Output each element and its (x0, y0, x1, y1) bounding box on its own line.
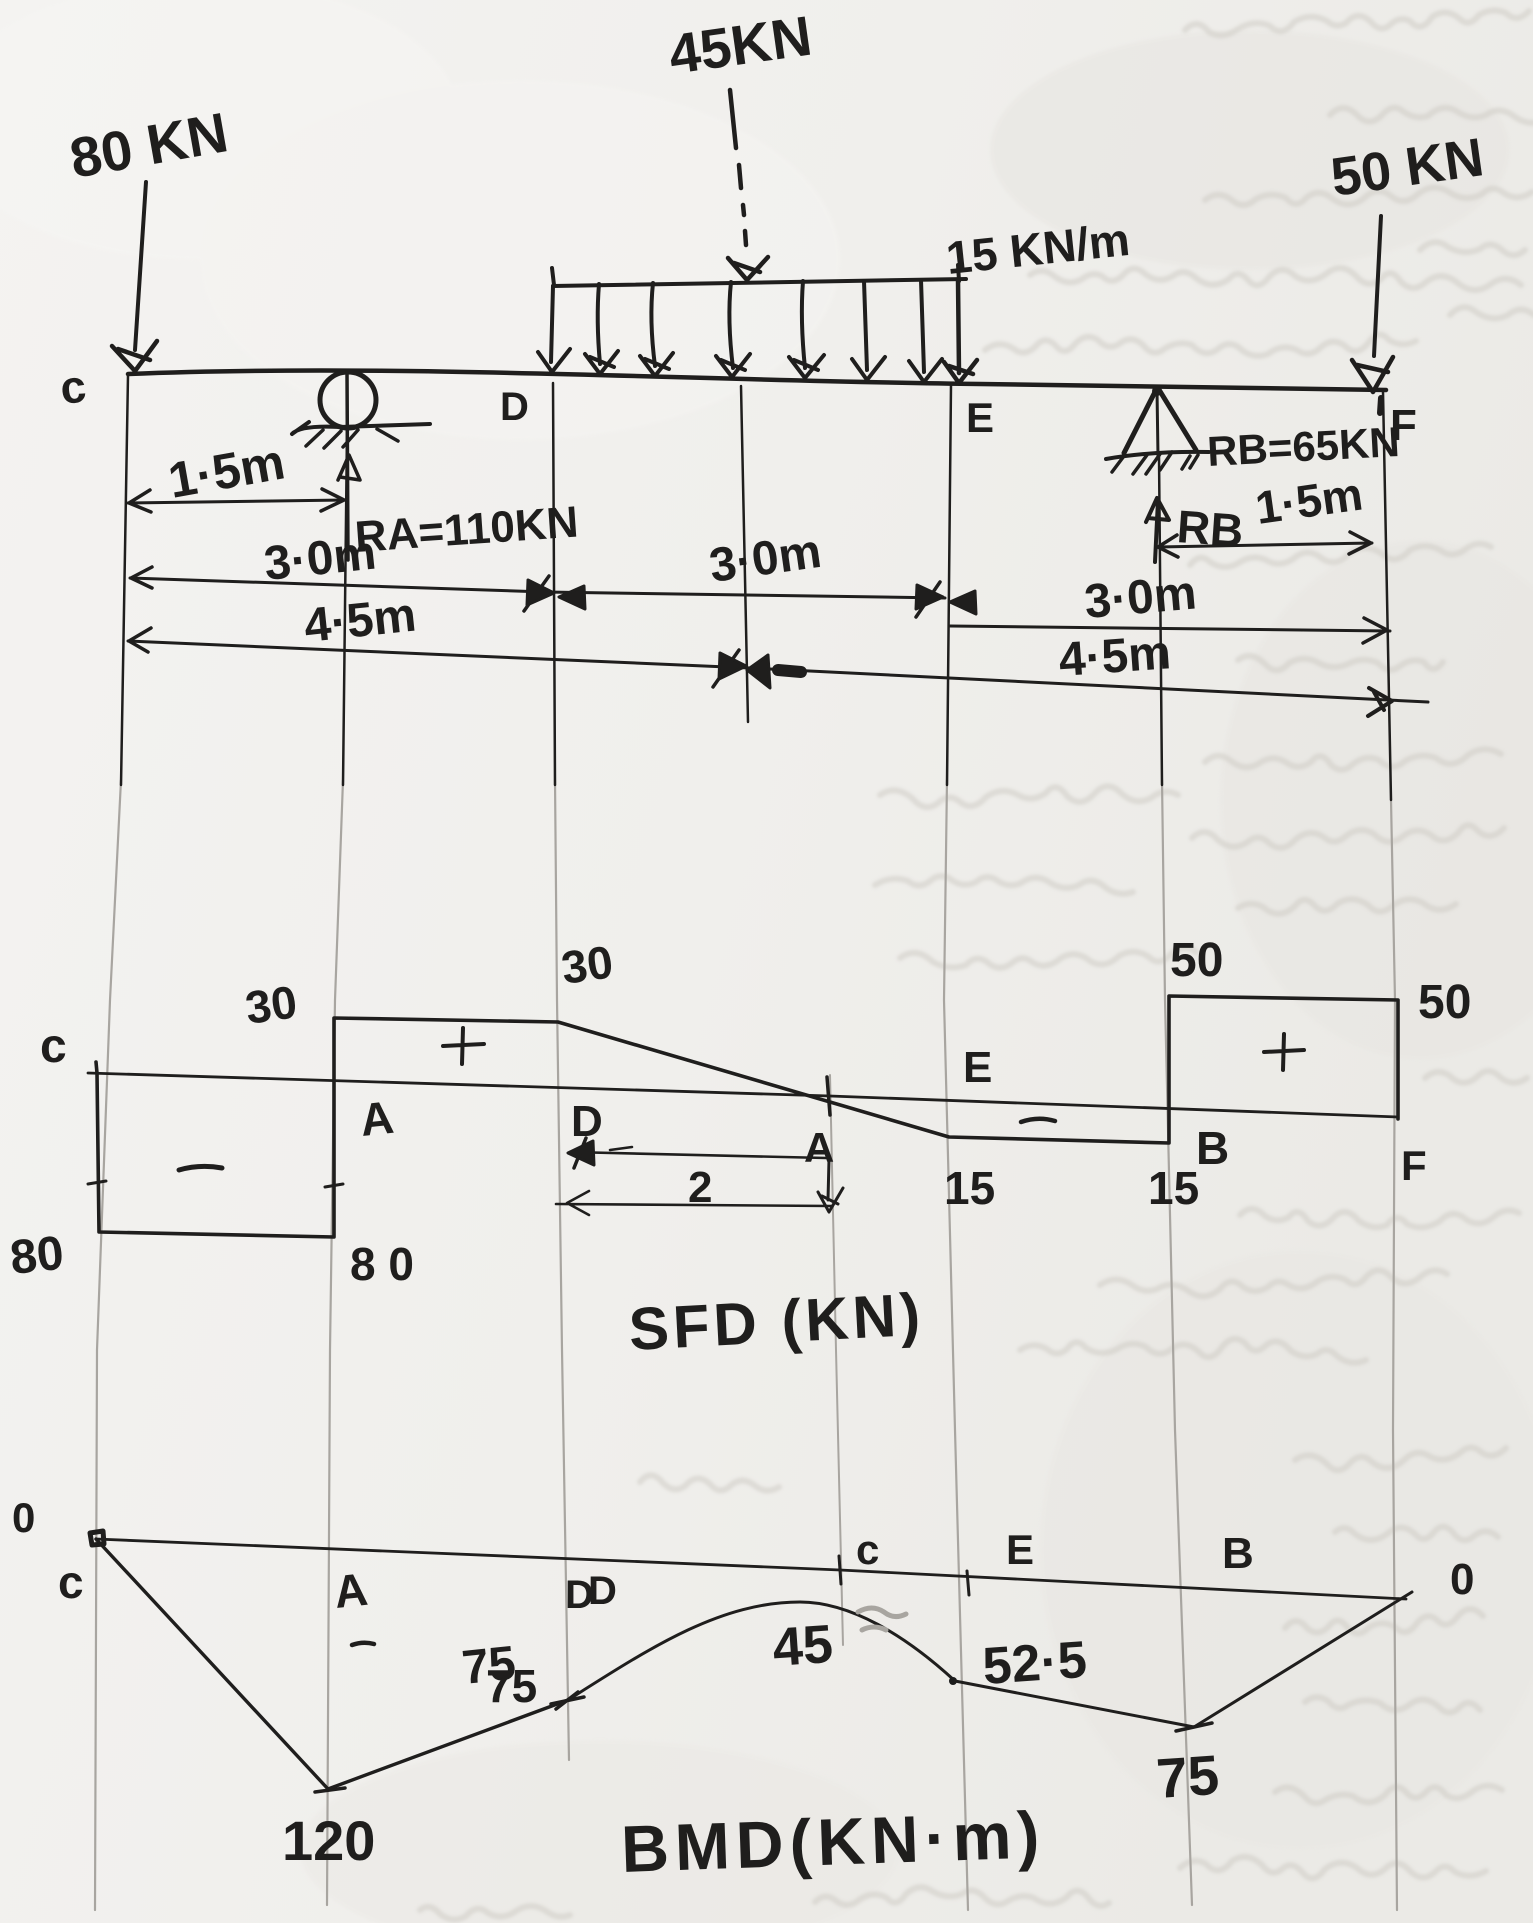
node F vertical guide (1391, 800, 1397, 1910)
dim 2m line upper D to crossing (570, 1147, 826, 1158)
SFD plus sign right (1264, 1034, 1304, 1070)
SFD outline (96, 996, 1398, 1237)
svg-text:c: c (856, 1526, 879, 1573)
svg-text:15: 15 (1148, 1162, 1199, 1214)
svg-text:F: F (1401, 1142, 1427, 1189)
svg-text:c: c (40, 1020, 67, 1073)
dimension verticals below beam: C (121, 375, 128, 785)
node C vertical guide (95, 780, 121, 1910)
roller support A ground line (292, 422, 430, 434)
UDL arrow 7 (909, 280, 942, 382)
50 kN load arrow at F (1374, 216, 1381, 356)
svg-text:30: 30 (242, 975, 300, 1034)
roller support A hatching (306, 429, 398, 448)
BMD tick at E (967, 1571, 969, 1595)
roller support A circle (320, 372, 376, 428)
SFD zero baseline C to F (88, 1073, 1398, 1117)
svg-text:52·5: 52·5 (981, 1631, 1089, 1696)
UDL arrow 6 (852, 281, 885, 380)
svg-text:E: E (963, 1043, 992, 1092)
dimension vertical F (1383, 392, 1391, 800)
node D vertical guide (555, 780, 569, 1760)
svg-text:A: A (332, 1563, 370, 1618)
svg-text:75: 75 (1154, 1743, 1221, 1810)
BMD tick at D point (551, 1692, 584, 1709)
svg-text:45: 45 (771, 1614, 835, 1678)
BMD line B-F (1194, 1592, 1412, 1727)
node B vertical guide (1162, 780, 1192, 1905)
UDL arrow 2 (585, 284, 618, 374)
BMD dot at E point (949, 1677, 957, 1685)
beam C to F (128, 370, 1386, 390)
BMD minus sign (352, 1643, 374, 1645)
bowtie arrows at D (527, 580, 585, 609)
svg-text:E: E (966, 394, 994, 441)
BMD baseline C to F (96, 1539, 1406, 1599)
dim arrowhead at C (4.5m) (129, 628, 151, 652)
svg-text:75: 75 (486, 1660, 537, 1712)
svg-text:BMD(KN·m): BMD(KN·m) (620, 1797, 1047, 1886)
SFD tick at zero crossing (827, 1077, 830, 1115)
pin support B ground line (1106, 452, 1209, 459)
svg-text:120: 120 (282, 1809, 375, 1872)
SFD minus sign right (1021, 1119, 1055, 1122)
mid zero-cross vertical guide (830, 1075, 843, 1645)
arrowhead at F (3.0m) (1363, 618, 1387, 643)
arrowhead at F (4.5m) (1368, 688, 1392, 716)
svg-text:15: 15 (944, 1162, 995, 1214)
UDL top line end stubs (552, 265, 959, 285)
UDL arrow 4 (716, 282, 750, 377)
svg-text:D: D (565, 1573, 594, 1617)
RA reaction arrow (338, 372, 360, 560)
dim 4.5m C-mid-F line (128, 641, 1428, 702)
svg-text:80: 80 (8, 1227, 67, 1285)
dim 2m line lower (556, 1191, 832, 1215)
pin support B hatching (1112, 452, 1198, 474)
dim 1.5m B-F line (1158, 543, 1372, 547)
RB reaction arrow at B (1146, 498, 1169, 562)
dim 1.5m arrowheads (129, 489, 344, 512)
dot after mid bowtie (778, 670, 801, 672)
svg-text:4·5m: 4·5m (1057, 626, 1172, 687)
svg-text:0: 0 (1450, 1555, 1474, 1604)
svg-text:RB=65KN: RB=65KN (1206, 418, 1401, 475)
svg-text:0: 0 (12, 1494, 35, 1541)
pin support B triangle (1124, 388, 1196, 453)
BMD line A-D (328, 1700, 568, 1789)
svg-text:3·0m: 3·0m (1082, 566, 1198, 629)
svg-text:2: 2 (688, 1163, 712, 1212)
UDL arrow 5 (789, 281, 824, 378)
UDL arrow 1 (538, 286, 570, 372)
BMD curve C-A (96, 1539, 328, 1789)
SFD tick on C vertical (88, 1181, 106, 1184)
80 kN load arrow at C (135, 182, 146, 350)
node A vertical guide (327, 780, 343, 1905)
svg-text:50: 50 (1418, 976, 1471, 1029)
svg-text:8 0: 8 0 (350, 1238, 414, 1290)
svg-text:A: A (358, 1091, 396, 1146)
BMD origin blob (90, 1531, 104, 1545)
dim 2m down arrow at crossing (818, 1160, 843, 1212)
45 kN arrowhead (728, 257, 768, 280)
bowtie arrows at mid (719, 653, 770, 688)
dim 3.0m C-D-E line (130, 578, 945, 598)
dimension vertical B (1159, 455, 1162, 785)
dimension vertical E (947, 385, 951, 785)
BMD parabola D to E (568, 1602, 955, 1700)
svg-text:30: 30 (558, 935, 616, 994)
SFD minus sign left (179, 1166, 222, 1170)
faint reverse-side handwriting show-through (1185, 10, 1529, 35)
UDL top line D to E (553, 279, 966, 286)
45 kN dashed load line (730, 90, 746, 245)
svg-text:D: D (500, 385, 529, 429)
svg-text:50: 50 (1170, 934, 1223, 987)
svg-text:c: c (58, 360, 89, 414)
UDL arrow 8 (944, 280, 977, 383)
dim 1.5m C-A line (128, 500, 345, 503)
bowtie arrows at E (916, 585, 976, 614)
svg-text:B: B (1196, 1122, 1229, 1174)
dimension vertical D (553, 383, 555, 785)
BMD tick at B bottom (1176, 1723, 1212, 1731)
node E vertical guide (944, 780, 968, 1910)
SFD tick on A vertical (325, 1184, 343, 1187)
stub below beam at F (1380, 398, 1381, 413)
UDL arrow 3 (640, 283, 673, 376)
dim arrowhead at C (3.0m) (131, 567, 152, 588)
BMD tick at A bottom (315, 1788, 345, 1792)
dim 3.0m E-F line (950, 626, 1390, 631)
dimension vertical mid (45kN point) (741, 386, 748, 722)
dimension vertical A (343, 430, 347, 785)
svg-text:B: B (1222, 1529, 1254, 1578)
svg-text:RB: RB (1175, 500, 1245, 557)
SFD plus sign left (443, 1028, 484, 1064)
svg-text:E: E (1006, 1526, 1034, 1573)
BMD line E-B (955, 1681, 1194, 1727)
faint scribble right of 45 (858, 1608, 906, 1630)
dim 1.5m B-F arrowheads (1158, 532, 1371, 557)
BMD tick at mid (45) (839, 1556, 841, 1584)
svg-text:c: c (58, 1556, 84, 1608)
